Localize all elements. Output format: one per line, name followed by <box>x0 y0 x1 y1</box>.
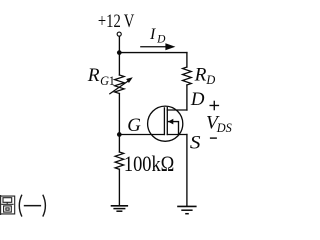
wire left rail bottom <box>118 169 120 205</box>
arrow of variable resistor RG1 <box>110 81 129 94</box>
caption dash yi <box>24 205 41 207</box>
ground right <box>177 206 196 213</box>
svg-text:+12 V: +12 V <box>98 11 134 32</box>
caption parenthesis right <box>43 195 46 217</box>
ground left <box>111 206 128 211</box>
svg-text:S: S <box>190 132 201 153</box>
caption partial CJK glyph <box>1 195 15 215</box>
resistor RD <box>183 67 192 85</box>
resistor RG1 <box>115 75 125 94</box>
svg-text:DS: DS <box>216 121 232 135</box>
mosfet Q1 body circle <box>148 106 183 141</box>
wire left rail top <box>118 53 120 75</box>
wire top horizontal <box>119 52 186 54</box>
svg-text:D: D <box>205 73 215 87</box>
wire terminal to top junction <box>118 36 120 52</box>
wire RD to drain corner <box>186 85 188 110</box>
wire drain stub <box>167 109 187 111</box>
svg-text:1: 1 <box>109 74 115 88</box>
label plus VDS <box>210 101 220 111</box>
svg-text:R: R <box>194 64 207 85</box>
mosfet gate bar <box>163 108 165 135</box>
mosfet channel bar <box>166 108 168 135</box>
svg-text:100kΩ: 100kΩ <box>124 151 174 176</box>
svg-text:G: G <box>127 115 141 136</box>
wire left rail mid <box>118 94 120 153</box>
current arrow ID <box>140 43 175 50</box>
arrowhead of variable resistor RG1 <box>126 77 133 83</box>
svg-text:R: R <box>87 65 100 86</box>
svg-text:D: D <box>156 33 166 45</box>
mosfet body arrowhead <box>168 119 173 125</box>
supply terminal +12V <box>117 32 121 36</box>
svg-text:I: I <box>149 26 156 43</box>
wire right rail to RD <box>186 53 188 67</box>
mosfet source stub <box>167 134 187 136</box>
resistor 100k <box>115 152 124 169</box>
caption parenthesis left <box>19 195 22 217</box>
junction dot gate <box>117 132 122 137</box>
wire gate lead <box>119 134 164 136</box>
wire source rail down <box>186 135 188 206</box>
svg-text:D: D <box>190 89 205 110</box>
mosfet body branch <box>168 122 179 135</box>
junction dot top <box>117 50 122 55</box>
label minus VDS <box>210 137 217 138</box>
